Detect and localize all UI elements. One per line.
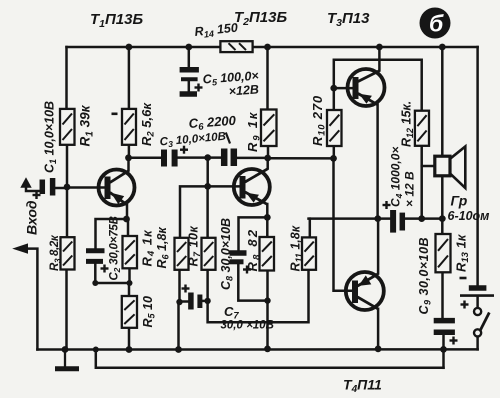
wire C5 bottom lead to ground bar — [188, 81, 191, 91]
wire base node to T2 base — [208, 185, 241, 188]
wire C4 right to speaker node — [405, 217, 442, 220]
resistor R11 — [302, 237, 316, 269]
wire T4 collector lead to ground — [377, 309, 380, 349]
wire C7 left plate tie — [180, 300, 189, 303]
wire R5 leads — [128, 283, 131, 296]
wire right perimeter from rail to battery — [476, 47, 479, 285]
node T1 emitter — [123, 216, 130, 223]
wire C3 left lead — [129, 157, 162, 160]
wire T2 emitter lead — [266, 204, 269, 217]
wire T2 collector lead — [266, 158, 269, 169]
svg-text:R3 8,2к: R3 8,2к — [49, 234, 62, 271]
wire R8 bottom lead to ground — [266, 271, 269, 349]
wire R2 bottom lead / T1 collector lead — [128, 145, 131, 158]
wire base node left to R6 top — [180, 186, 208, 237]
wire ground rail — [37, 348, 477, 351]
transistor T1 — [99, 170, 135, 206]
wire R1 bottom lead to base node — [66, 145, 69, 188]
node T1 collector / C3 — [125, 154, 132, 161]
node rail C5 — [185, 44, 192, 51]
wire C5 top lead — [188, 47, 191, 67]
transistor T3 — [348, 69, 385, 106]
battery B positive plate — [460, 294, 494, 297]
wire C2 bottom lead — [94, 264, 97, 283]
node C8 R8 — [264, 297, 270, 303]
svg-text:R13 1к: R13 1к — [454, 233, 472, 272]
resistor R2 — [122, 109, 136, 145]
wire R3 top lead — [66, 188, 69, 238]
svg-text:R8 82: R8 82 — [245, 228, 263, 272]
svg-text:R5 10: R5 10 — [141, 296, 157, 327]
node T3 emitter output — [374, 215, 381, 222]
switch Vk contact top — [474, 308, 481, 315]
node R4 bottom — [127, 280, 133, 286]
ground symbol stub — [64, 350, 66, 367]
capacitor C1 — [33, 178, 53, 199]
wire battery positive plate to switch — [476, 296, 479, 308]
resistor R5 — [122, 296, 137, 328]
node T2 emitter — [264, 214, 271, 221]
wire R7 top lead — [206, 186, 209, 237]
node T1 base — [64, 184, 71, 191]
svg-text:R10 270: R10 270 — [310, 95, 328, 146]
wire R3 bottom lead to ground rail — [65, 270, 68, 350]
wire node A drop to base node — [206, 158, 209, 187]
wire T1 base lead — [67, 186, 106, 189]
capacitor C9 — [434, 321, 458, 345]
wire T4 emitter lead — [377, 219, 380, 274]
node R10 bottom — [330, 155, 337, 162]
node ground rail R6 — [175, 346, 182, 353]
transistor T2 — [234, 169, 270, 205]
capacitor C7 — [182, 285, 200, 310]
wire R4 top lead — [127, 219, 130, 236]
node dots group — [62, 44, 447, 353]
node ground rail T4 — [375, 346, 382, 353]
wire top supply rail — [67, 46, 478, 49]
capacitor C2 — [86, 251, 109, 273]
wire T4 base drop — [334, 158, 353, 290]
svg-text:Т3П13: Т3П13 — [327, 10, 370, 29]
resistor R7 — [202, 238, 216, 270]
ground bar below C5 — [180, 91, 197, 97]
capacitor C8 — [230, 253, 252, 274]
node ground rail R8 — [264, 346, 271, 353]
wire R1 top lead — [65, 47, 68, 109]
node T2 collector — [264, 155, 271, 162]
svg-text:6-10ом: 6-10ом — [448, 209, 490, 223]
speaker Gr cone — [450, 147, 465, 189]
node T2 base / R6 R7 — [204, 183, 211, 190]
wire output node run — [309, 217, 391, 220]
leader line from C6 label to C6 — [226, 133, 230, 144]
wire R13 top lead — [441, 219, 444, 234]
node A after C3 — [204, 154, 211, 161]
resistor R1 — [60, 109, 75, 145]
wire feedback run R7 node to R11 bottom — [208, 270, 309, 323]
wire T2 collector node to R10 bottom — [268, 157, 333, 160]
resistor R4 — [123, 236, 138, 268]
wire R10 bottom lead — [333, 146, 336, 158]
speaker Gr coil square — [435, 156, 450, 176]
wire T1 emitter lead — [126, 205, 129, 220]
minus mark near R2 — [112, 113, 118, 116]
wire R10 top lead — [333, 88, 336, 110]
capacitor C6 — [224, 149, 234, 167]
wire input lower terminal to ground rail — [28, 249, 37, 350]
resistor R13 — [436, 234, 451, 272]
input terminal arrow top — [20, 177, 31, 188]
transistor T4 — [346, 272, 384, 310]
input terminal arrow bottom — [12, 243, 28, 253]
wire R6/C7 node to ground — [177, 302, 180, 350]
svg-text:R2 5,6к: R2 5,6к — [139, 102, 157, 146]
wire R12 bottom lead — [420, 146, 423, 219]
node ground rail left — [62, 346, 69, 353]
wire R7 bottom lead — [206, 270, 209, 301]
svg-text:×12В: ×12В — [228, 82, 259, 98]
svg-text:R7 10к: R7 10к — [187, 226, 203, 267]
node ground rail C9 — [440, 346, 447, 353]
svg-text:R12 15к.: R12 15к. — [400, 101, 416, 147]
resistor R9 — [261, 110, 277, 147]
node R12 bottom — [418, 215, 425, 222]
wire speaker bottom lead — [441, 176, 444, 219]
resistor R6 — [175, 238, 189, 270]
node rail speaker — [439, 44, 446, 51]
wire C2/R4 bottom tie — [95, 282, 129, 285]
wire R13 bottom lead to C9 — [441, 272, 444, 317]
wire C3 right to node A — [178, 156, 208, 159]
wire bottom perimeter return — [96, 350, 444, 368]
wire R9 bottom lead — [267, 146, 270, 158]
node R7 C7 — [204, 298, 210, 304]
wire T3 base node run to R12 top — [334, 60, 422, 111]
switch Vk lever — [479, 313, 489, 334]
wire speaker stub to R12 lead — [422, 165, 435, 168]
node rail R2 — [125, 44, 132, 51]
ground symbol bar — [55, 366, 79, 371]
svg-text:Т2П13Б: Т2П13Б — [234, 9, 287, 28]
svg-text:б: б — [429, 11, 444, 37]
wire R6 bottom lead — [178, 270, 181, 302]
resistor R8 — [260, 237, 275, 271]
figure badge circle b — [420, 8, 451, 39]
wire node A to C6 left plate — [208, 156, 221, 159]
battery B negative plate — [469, 285, 487, 291]
wire C1 right plate to base node — [56, 187, 68, 190]
wire T3 collector lead to rail — [378, 47, 381, 71]
resistor R3 — [61, 237, 75, 269]
node ground rail R5 — [126, 346, 133, 353]
wire T3 base lead — [334, 87, 354, 90]
svg-text:× 12 В: × 12 В — [403, 171, 417, 207]
resistor R12 — [415, 111, 429, 146]
wire R9 top lead — [266, 47, 269, 110]
svg-text:R11 1,8к: R11 1,8к — [289, 225, 305, 271]
capacitor C5 — [180, 70, 203, 92]
wire C9 bottom lead down to perimeter — [442, 335, 445, 367]
wire C8 bottom lead — [238, 264, 267, 300]
wire R8 top lead — [266, 217, 269, 237]
wire R2 top lead — [128, 47, 131, 109]
capacitor C3 — [164, 146, 188, 167]
node R6 C7 — [176, 299, 182, 305]
node rail T3 collector — [376, 44, 383, 51]
node C2 bottom — [92, 280, 98, 286]
resistor R10 — [327, 110, 342, 146]
wire T3 emitter lead to output node — [376, 105, 379, 219]
wire T2 emitter node to C8 — [239, 217, 268, 250]
wire emitter node to C2 branch — [96, 219, 127, 248]
wire C7 right plate to R7 bottom node — [202, 300, 207, 303]
battery B plus sign — [461, 301, 469, 309]
svg-text:Гр: Гр — [451, 193, 468, 209]
svg-text:Т1П13Б: Т1П13Б — [90, 11, 143, 30]
wire input top terminal to C1 — [26, 187, 40, 191]
node rail R9 — [264, 44, 271, 51]
resistor R14 — [220, 41, 252, 52]
node speaker R13 — [439, 215, 446, 222]
node ground rail perimeter — [93, 347, 99, 353]
capacitor C4 — [383, 201, 403, 233]
wire R4 bottom lead — [128, 268, 131, 283]
svg-text:R9 1к: R9 1к — [245, 111, 263, 152]
wire ground rail to switch — [476, 337, 479, 350]
wire speaker top lead from rail — [441, 47, 444, 156]
battery B minus sign — [460, 277, 467, 280]
wire C6 right plate to T2 collector node — [237, 157, 268, 160]
svg-text:30,0 ×10В: 30,0 ×10В — [221, 320, 274, 332]
switch Vk contact bottom — [474, 329, 481, 336]
svg-text:Т4П11: Т4П11 — [343, 377, 382, 396]
svg-text:R6 1,8к: R6 1,8к — [155, 227, 171, 269]
svg-text:Вход: Вход — [24, 200, 40, 235]
node T3 base — [330, 85, 337, 92]
